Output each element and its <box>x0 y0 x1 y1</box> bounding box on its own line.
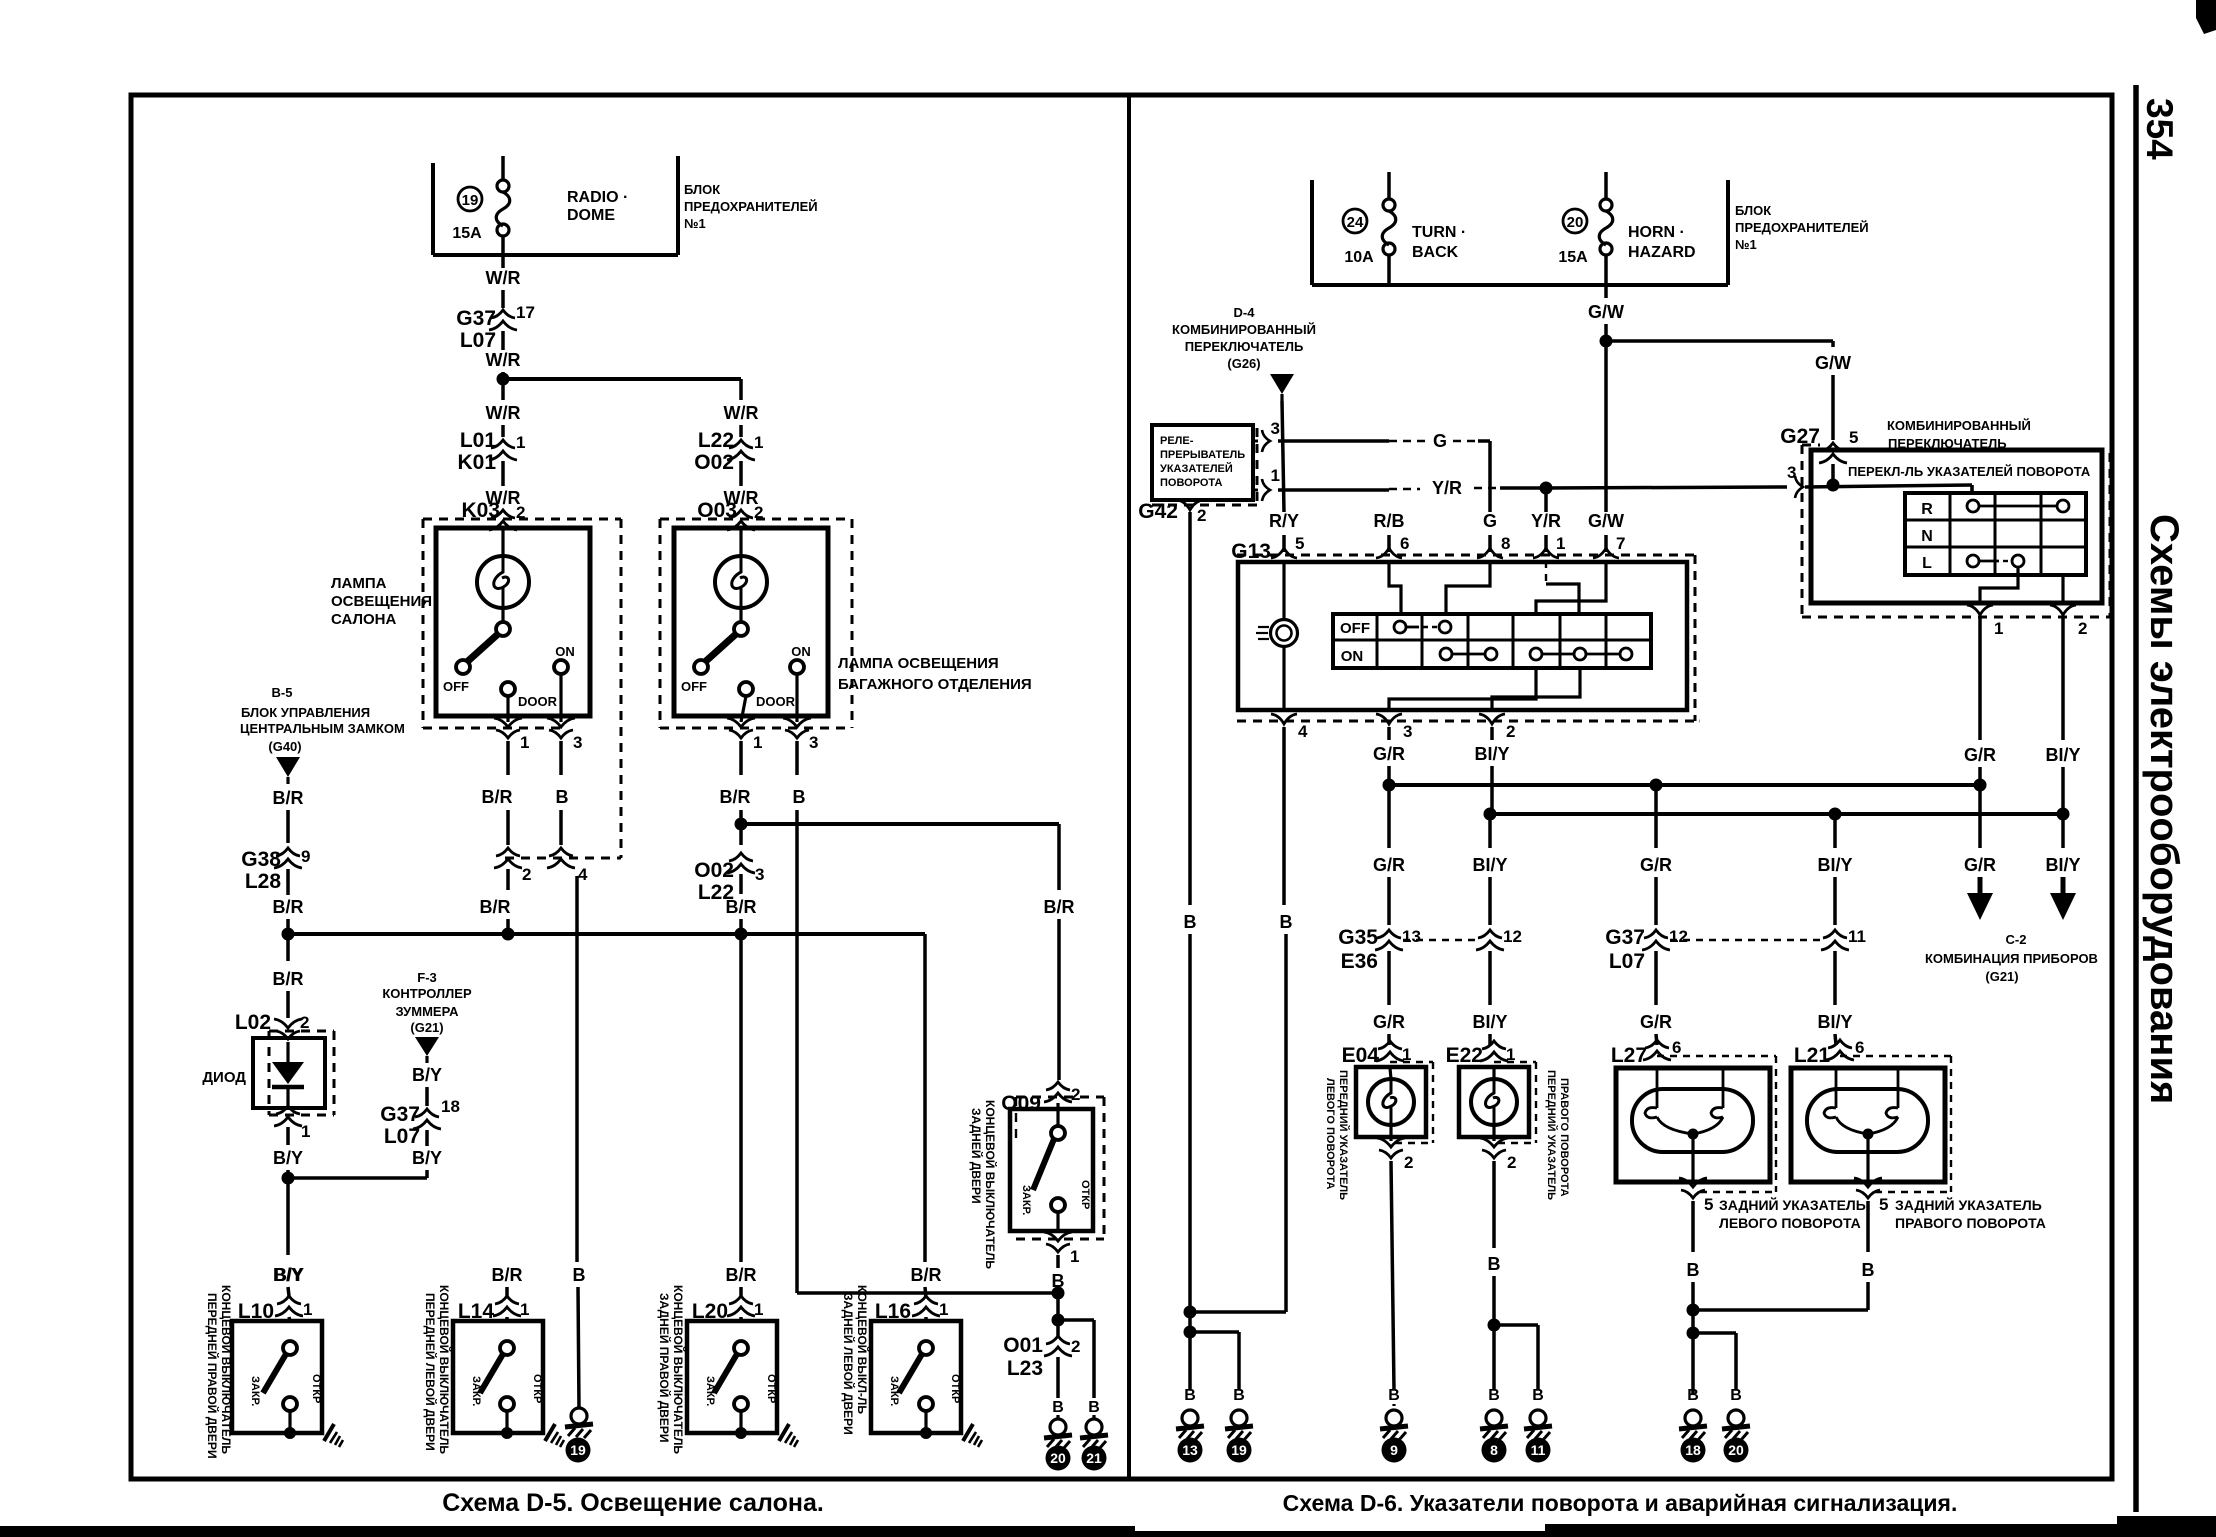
connector O03 pin 2 <box>727 510 755 530</box>
svg-text:B/R: B/R <box>492 1265 523 1285</box>
svg-text:ПРЕРЫВАТЕЛЬ: ПРЕРЫВАТЕЛЬ <box>1160 449 1245 461</box>
svg-text:BI/Y: BI/Y <box>1817 1012 1852 1032</box>
svg-text:B/Y: B/Y <box>412 1148 442 1168</box>
ground 19b <box>1225 1410 1253 1440</box>
svg-text:2: 2 <box>2078 619 2087 638</box>
ON row contacts <box>1440 648 1452 660</box>
svg-text:R/Y: R/Y <box>1269 511 1299 531</box>
connector G37/L07 pin 17 <box>489 310 517 330</box>
svg-text:B: B <box>1280 912 1293 932</box>
svg-text:L28: L28 <box>245 870 282 893</box>
svg-text:F-3: F-3 <box>417 970 437 985</box>
svg-text:20: 20 <box>1050 1450 1066 1466</box>
svg-text:L07: L07 <box>1609 950 1645 973</box>
lamp switch pivot and lever <box>739 608 742 622</box>
svg-text:B: B <box>1862 1260 1875 1280</box>
svg-text:HAZARD: HAZARD <box>1628 244 1696 261</box>
svg-text:Схема D-5. Освещение салона.: Схема D-5. Освещение салона. <box>442 1489 824 1517</box>
svg-text:5: 5 <box>1295 534 1304 553</box>
svg-text:ЗАКР.: ЗАКР. <box>704 1376 716 1406</box>
svg-text:B: B <box>1687 1387 1699 1404</box>
connector L01/K01 pin 1 <box>489 440 517 460</box>
svg-text:G42: G42 <box>1138 500 1178 523</box>
svg-text:6: 6 <box>1855 1038 1864 1057</box>
output jogs <box>1389 668 1536 710</box>
svg-text:G/W: G/W <box>1588 511 1624 531</box>
feeds/outputs of turn switch <box>1970 485 1973 493</box>
connector pin 12 <box>1476 930 1504 950</box>
svg-text:2: 2 <box>1071 1085 1080 1104</box>
svg-text:R: R <box>1921 501 1933 518</box>
svg-text:BI/Y: BI/Y <box>2045 855 2080 875</box>
svg-text:354: 354 <box>2139 98 2180 160</box>
svg-text:ДИОД: ДИОД <box>202 1069 246 1086</box>
svg-text:12: 12 <box>1503 927 1522 946</box>
connector G38/L28 pin 9 <box>274 848 302 868</box>
svg-text:G37: G37 <box>456 307 496 330</box>
svg-text:13: 13 <box>1402 927 1421 946</box>
connector O02/L22 pin 3 <box>727 853 755 873</box>
svg-text:W/R: W/R <box>486 268 521 288</box>
feed jogs into table <box>1389 561 1401 614</box>
svg-text:24: 24 <box>1347 214 1364 231</box>
svg-text:Y/R: Y/R <box>1432 478 1462 498</box>
svg-text:КОМБИНИРОВАННЫЙ: КОМБИНИРОВАННЫЙ <box>1887 418 2031 433</box>
panel divider <box>1127 95 1131 1479</box>
svg-text:ОСВЕЩЕНИЯ: ОСВЕЩЕНИЯ <box>331 593 432 610</box>
svg-text:ОТКР: ОТКР <box>949 1374 961 1403</box>
svg-text:TURN ·: TURN · <box>1412 224 1466 241</box>
ON contact <box>554 660 568 674</box>
ground 13 <box>1176 1410 1204 1440</box>
svg-text:ПЕРЕДНЕЙ ЛЕВОЙ ДВЕРИ: ПЕРЕДНЕЙ ЛЕВОЙ ДВЕРИ <box>423 1293 438 1451</box>
svg-text:ПРЕДОХРАНИТЕЛЕЙ: ПРЕДОХРАНИТЕЛЕЙ <box>684 199 818 214</box>
svg-text:G/R: G/R <box>1640 855 1672 875</box>
diode L02 <box>269 1030 334 1033</box>
svg-text:ПЕРЕКЛ-ЛЬ УКАЗАТЕЛЕЙ ПОВОРОТА: ПЕРЕКЛ-ЛЬ УКАЗАТЕЛЕЙ ПОВОРОТА <box>1848 464 2091 479</box>
svg-text:B: B <box>1184 1387 1196 1404</box>
fuse 24 10A TURN-BACK <box>1387 172 1391 199</box>
svg-text:G/W: G/W <box>1588 302 1624 322</box>
rear left turn lamp L27 <box>1643 1040 1671 1060</box>
svg-text:ЛАМПА: ЛАМПА <box>331 575 387 592</box>
G27 pin 3 entry <box>1795 476 1803 498</box>
connector L22/O02 pin 1 <box>727 440 755 460</box>
svg-text:САЛОНА: САЛОНА <box>331 611 396 628</box>
svg-text:БАГАЖНОГО ОТДЕЛЕНИЯ: БАГАЖНОГО ОТДЕЛЕНИЯ <box>838 676 1032 693</box>
L27 column: G/R down <box>1654 785 1658 848</box>
svg-text:ОТКР: ОТКР <box>1079 1180 1091 1209</box>
junction node <box>497 373 510 386</box>
svg-text:G13: G13 <box>1231 540 1271 563</box>
svg-text:L22: L22 <box>698 429 734 452</box>
svg-text:OFF: OFF <box>1340 620 1370 637</box>
svg-text:ЗАДНИЙ УКАЗАТЕЛЬ: ЗАДНИЙ УКАЗАТЕЛЬ <box>1719 1196 1866 1213</box>
svg-text:L: L <box>1922 555 1932 572</box>
svg-text:ЗАДНЕЙ ПРАВОЙ ДВЕРИ: ЗАДНЕЙ ПРАВОЙ ДВЕРИ <box>657 1293 672 1443</box>
relay pin 1 (Y/R wire) <box>1253 489 1258 492</box>
svg-text:11: 11 <box>1531 1442 1546 1458</box>
svg-text:№1: №1 <box>684 216 706 231</box>
svg-text:1: 1 <box>301 1122 310 1141</box>
trunk lamp O03 box <box>674 528 828 716</box>
G13 bottom pins 4,3,2 <box>1271 714 1297 724</box>
svg-text:1: 1 <box>1994 619 2003 638</box>
svg-text:G27: G27 <box>1780 425 1820 448</box>
svg-text:W/R: W/R <box>486 403 521 423</box>
svg-text:DOOR: DOOR <box>518 694 558 709</box>
interior lamp K03 box <box>436 528 590 716</box>
svg-text:8: 8 <box>1490 1442 1498 1458</box>
svg-text:L02: L02 <box>235 1011 271 1034</box>
rear door switch O09 <box>1044 1082 1072 1102</box>
svg-text:4: 4 <box>578 865 588 884</box>
wires door/on out of lamp K03, pins 1 and 3 <box>506 696 509 722</box>
svg-text:ЗАКР.: ЗАКР. <box>1020 1185 1032 1215</box>
svg-text:БЛОК: БЛОК <box>684 182 720 197</box>
svg-text:BACK: BACK <box>1412 244 1459 261</box>
svg-text:HORN ·: HORN · <box>1628 224 1685 241</box>
svg-text:B/Y: B/Y <box>412 1065 442 1085</box>
connector K03 pin 2 <box>489 510 517 530</box>
svg-text:1: 1 <box>753 733 762 752</box>
svg-text:BI/Y: BI/Y <box>1474 744 1509 764</box>
svg-text:2: 2 <box>1404 1153 1413 1172</box>
svg-text:БЛОК УПРАВЛЕНИЯ: БЛОК УПРАВЛЕНИЯ <box>241 705 370 720</box>
relay pin 3 (G wire) <box>1253 440 1258 443</box>
interior lamp unit K03 dashed boundary <box>422 519 425 728</box>
svg-text:OFF: OFF <box>443 679 469 694</box>
svg-text:B: B <box>1388 1387 1400 1404</box>
svg-text:W/R: W/R <box>486 350 521 370</box>
svg-text:9: 9 <box>301 847 310 866</box>
connector pin 1 below diode <box>274 1106 302 1126</box>
svg-text:B: B <box>1488 1387 1500 1404</box>
fuse 19 15A RADIO-DOME <box>501 156 505 180</box>
svg-text:19: 19 <box>462 192 479 209</box>
svg-text:ЦЕНТРАЛЬНЫМ ЗАМКОМ: ЦЕНТРАЛЬНЫМ ЗАМКОМ <box>240 721 405 736</box>
svg-text:B: B <box>1088 1399 1100 1416</box>
svg-text:B/R: B/R <box>726 1265 757 1285</box>
svg-text:1: 1 <box>754 1300 763 1319</box>
svg-text:ON: ON <box>791 644 811 659</box>
connector O01/L23 pin 2 <box>1044 1336 1072 1356</box>
R/Y wire from D-4 <box>1282 401 1284 512</box>
svg-text:1: 1 <box>754 433 763 452</box>
B/R bus junction <box>288 932 925 936</box>
svg-text:L07: L07 <box>384 1125 420 1148</box>
BI/Y bus <box>1490 812 2063 816</box>
svg-text:RADIO ·: RADIO · <box>567 189 628 206</box>
svg-text:ПЕРЕКЛЮЧАТЕЛЬ: ПЕРЕКЛЮЧАТЕЛЬ <box>1185 339 1304 354</box>
svg-text:ПРАВОГО ПОВОРОТА: ПРАВОГО ПОВОРОТА <box>1895 1215 2046 1231</box>
svg-text:1: 1 <box>516 433 525 452</box>
wire B from trunk lamp to O01 <box>797 1291 1058 1295</box>
svg-text:E04: E04 <box>1342 1044 1380 1067</box>
ground 18 <box>1679 1410 1707 1440</box>
svg-text:5: 5 <box>1704 1195 1713 1214</box>
scan noise bottom bar <box>0 1526 1135 1537</box>
wires out of O03 pins 1 and 3 <box>741 696 746 722</box>
ground 20 <box>1722 1410 1750 1440</box>
Y/R riser to G13 pin 1 <box>1544 488 1548 512</box>
ground 20 <box>1044 1419 1072 1449</box>
scan noise top right <box>2196 0 2216 34</box>
svg-text:7: 7 <box>1616 534 1625 553</box>
ground 19 <box>565 1408 593 1438</box>
svg-text:17: 17 <box>516 303 535 322</box>
svg-text:G38: G38 <box>241 848 281 871</box>
svg-text:G35: G35 <box>1338 926 1378 949</box>
svg-text:O01: O01 <box>1003 1334 1043 1357</box>
ground 11 <box>1524 1410 1552 1440</box>
G/W wire from fuse 20 <box>1604 285 1608 298</box>
sidebar rule <box>2133 85 2139 1512</box>
svg-text:L27: L27 <box>1611 1044 1647 1067</box>
branch to ground 21 <box>1058 1318 1094 1322</box>
svg-text:ОТКР: ОТКР <box>765 1374 777 1403</box>
svg-text:2: 2 <box>1506 722 1515 741</box>
svg-text:КОНЦЕВОЙ ВЫКЛЮЧАТЕЛЬ: КОНЦЕВОЙ ВЫКЛЮЧАТЕЛЬ <box>219 1285 234 1454</box>
svg-text:3: 3 <box>755 865 764 884</box>
connector G37/L07 pin 12 <box>1642 930 1670 950</box>
svg-text:R/B: R/B <box>1374 511 1405 531</box>
junction to buzzer controller <box>282 1172 295 1185</box>
OFF contact <box>456 660 470 674</box>
OFF contact <box>694 660 708 674</box>
lamp bulb <box>501 528 504 556</box>
svg-text:ПРЕДОХРАНИТЕЛЕЙ: ПРЕДОХРАНИТЕЛЕЙ <box>1735 220 1869 235</box>
svg-text:18: 18 <box>441 1097 460 1116</box>
svg-text:BI/Y: BI/Y <box>1472 1012 1507 1032</box>
svg-text:K01: K01 <box>457 451 496 474</box>
E04 column: G/R down <box>1387 791 1391 848</box>
svg-text:2: 2 <box>300 1013 309 1032</box>
ground 21 <box>1080 1419 1108 1449</box>
svg-text:B: B <box>556 787 569 807</box>
svg-text:BI/Y: BI/Y <box>1472 855 1507 875</box>
svg-text:W/R: W/R <box>724 403 759 423</box>
svg-text:13: 13 <box>1182 1442 1198 1458</box>
svg-text:B: B <box>573 1265 586 1285</box>
svg-text:B/R: B/R <box>726 897 757 917</box>
svg-text:B/R: B/R <box>482 787 513 807</box>
svg-text:9: 9 <box>1390 1442 1398 1458</box>
svg-text:19: 19 <box>1231 1442 1247 1458</box>
svg-text:B/R: B/R <box>273 897 304 917</box>
svg-text:2: 2 <box>1197 506 1206 525</box>
svg-text:(G21): (G21) <box>410 1020 443 1035</box>
svg-text:G: G <box>1483 511 1497 531</box>
L row contacts <box>1967 555 1979 567</box>
L21 column: BI/Y down <box>1833 820 1837 848</box>
branch node to rear door switch O09 <box>735 818 748 831</box>
svg-text:O02: O02 <box>694 451 734 474</box>
G13 connector row <box>1237 554 1695 557</box>
svg-text:G/R: G/R <box>1964 745 1996 765</box>
svg-text:G/R: G/R <box>1640 1012 1672 1032</box>
svg-text:B/R: B/R <box>480 897 511 917</box>
svg-text:БЛОК: БЛОК <box>1735 203 1771 218</box>
svg-text:DOOR: DOOR <box>756 694 796 709</box>
inline connector pins 2 and 4 <box>494 848 522 868</box>
svg-text:3: 3 <box>1787 463 1796 482</box>
svg-text:O02: O02 <box>694 859 734 882</box>
svg-text:BI/Y: BI/Y <box>1817 855 1852 875</box>
svg-text:O09: O09 <box>1001 1092 1041 1115</box>
svg-text:КОНЦЕВОЙ ВЫКЛЮЧАТЕЛЬ: КОНЦЕВОЙ ВЫКЛЮЧАТЕЛЬ <box>983 1100 998 1269</box>
svg-text:G37: G37 <box>380 1103 420 1126</box>
svg-text:1: 1 <box>1070 1247 1079 1266</box>
svg-text:8: 8 <box>1501 534 1510 553</box>
connector G37/L07 pin 18 <box>413 1109 441 1129</box>
svg-text:B/R: B/R <box>273 969 304 989</box>
svg-text:КОНЦЕВОЙ ВЫКЛЮЧАТЕЛЬ: КОНЦЕВОЙ ВЫКЛЮЧАТЕЛЬ <box>671 1285 686 1454</box>
trunk lamp unit O03 dashed boundary <box>659 519 662 728</box>
svg-text:РЕЛЕ-: РЕЛЕ- <box>1160 435 1194 447</box>
svg-text:ON: ON <box>1341 648 1364 665</box>
C-2 combination of instruments arrows <box>1978 785 1982 848</box>
svg-text:4: 4 <box>1298 722 1308 741</box>
svg-text:B/R: B/R <box>911 1265 942 1285</box>
svg-text:Схема D-6. Указатели поворота: Схема D-6. Указатели поворота и аварийна… <box>1283 1490 1958 1516</box>
illumination lamp <box>1282 562 1285 619</box>
ground 9 <box>1380 1410 1408 1440</box>
svg-text:L21: L21 <box>1794 1044 1831 1067</box>
svg-text:ПРАВОГО ПОВОРОТА: ПРАВОГО ПОВОРОТА <box>1558 1078 1570 1197</box>
svg-text:ОТКР: ОТКР <box>531 1374 543 1403</box>
svg-text:УКАЗАТЕЛЕЙ: УКАЗАТЕЛЕЙ <box>1160 462 1233 475</box>
svg-text:ЛЕВОГО ПОВОРОТА: ЛЕВОГО ПОВОРОТА <box>1324 1078 1336 1189</box>
svg-text:G/R: G/R <box>1373 744 1405 764</box>
svg-text:1: 1 <box>520 1300 529 1319</box>
svg-text:КОНЦЕВОЙ ВЫКЛЮЧАТЕЛЬ: КОНЦЕВОЙ ВЫКЛЮЧАТЕЛЬ <box>437 1285 452 1454</box>
svg-text:3: 3 <box>573 733 582 752</box>
svg-text:G37: G37 <box>1605 926 1645 949</box>
svg-text:N: N <box>1921 528 1933 545</box>
svg-text:1: 1 <box>1556 534 1565 553</box>
svg-text:L07: L07 <box>460 329 496 352</box>
hazard contact table <box>1333 614 1651 668</box>
R row contacts <box>1967 500 1979 512</box>
svg-text:21: 21 <box>1086 1450 1102 1466</box>
ground 8 <box>1480 1410 1508 1440</box>
lamp bulb <box>739 528 742 556</box>
svg-text:5: 5 <box>1849 428 1858 447</box>
svg-text:G: G <box>1433 431 1447 451</box>
svg-text:1: 1 <box>1271 466 1280 485</box>
svg-text:OFF: OFF <box>681 679 707 694</box>
svg-text:5: 5 <box>1879 1195 1888 1214</box>
svg-text:КОМБИНАЦИЯ ПРИБОРОВ: КОМБИНАЦИЯ ПРИБОРОВ <box>1925 951 2098 966</box>
fuse box 1 (БЛОК ПРЕДОХРАНИТЕЛЕЙ №1) <box>431 163 435 255</box>
svg-text:B/Y: B/Y <box>273 1148 303 1168</box>
svg-text:ПЕРЕДНЕЙ ПРАВОЙ ДВЕРИ: ПЕРЕДНЕЙ ПРАВОЙ ДВЕРИ <box>205 1293 220 1459</box>
svg-text:B: B <box>1233 1387 1245 1404</box>
svg-text:ПЕРЕДНИЙ УКАЗАТЕЛЬ: ПЕРЕДНИЙ УКАЗАТЕЛЬ <box>1337 1070 1350 1200</box>
svg-text:1: 1 <box>939 1300 948 1319</box>
svg-text:G/R: G/R <box>1373 1012 1405 1032</box>
svg-text:ЗАДНИЙ УКАЗАТЕЛЬ: ЗАДНИЙ УКАЗАТЕЛЬ <box>1895 1196 2042 1213</box>
connector pin 11 <box>1821 930 1849 950</box>
R/N/L contact table <box>1905 493 2086 575</box>
svg-text:ЗАДНЕЙ ДВЕРИ: ЗАДНЕЙ ДВЕРИ <box>969 1108 984 1204</box>
svg-text:КОМБИНИРОВАННЫЙ: КОМБИНИРОВАННЫЙ <box>1172 322 1316 337</box>
svg-text:B: B <box>1730 1387 1742 1404</box>
svg-text:B/Y: B/Y <box>274 1265 304 1285</box>
svg-text:6: 6 <box>1672 1038 1681 1057</box>
svg-text:2: 2 <box>522 865 531 884</box>
svg-text:ПЕРЕДНИЙ УКАЗАТЕЛЬ: ПЕРЕДНИЙ УКАЗАТЕЛЬ <box>1545 1070 1558 1200</box>
svg-text:ЗАКР.: ЗАКР. <box>470 1376 482 1406</box>
E22 column: BI/Y down <box>1488 820 1492 848</box>
svg-text:B/R: B/R <box>720 787 751 807</box>
connector G27 pin 5 <box>1819 443 1847 463</box>
svg-text:BI/Y: BI/Y <box>2045 745 2080 765</box>
rear right turn lamp L21 <box>1826 1040 1854 1060</box>
svg-text:L23: L23 <box>1007 1357 1043 1380</box>
svg-text:B: B <box>1184 912 1197 932</box>
ON contact <box>790 660 804 674</box>
svg-text:G/R: G/R <box>1373 855 1405 875</box>
svg-text:Схемы электрооборудования: Схемы электрооборудования <box>2142 514 2186 1104</box>
svg-text:2: 2 <box>1507 1153 1516 1172</box>
svg-text:B/R: B/R <box>273 788 304 808</box>
svg-text:КОНЦЕВОЙ ВЫКЛ-ЛЬ: КОНЦЕВОЙ ВЫКЛ-ЛЬ <box>855 1285 870 1414</box>
svg-text:11: 11 <box>1848 927 1866 946</box>
G/W branch to turn signal switch <box>1606 339 1833 343</box>
svg-text:15A: 15A <box>452 225 482 242</box>
svg-text:E36: E36 <box>1341 950 1378 973</box>
turn signal relay РЕЛЕ-ПРЕРЫВАТЕЛЬ <box>1152 425 1253 500</box>
svg-text:B: B <box>1488 1254 1501 1274</box>
svg-text:L01: L01 <box>460 429 497 452</box>
svg-text:1: 1 <box>303 1300 312 1319</box>
connector L02 pin 2 <box>274 1019 302 1039</box>
svg-text:(G40): (G40) <box>268 739 301 754</box>
svg-text:№1: №1 <box>1735 237 1757 252</box>
svg-text:6: 6 <box>1400 534 1409 553</box>
svg-text:ЗУММЕРА: ЗУММЕРА <box>396 1004 460 1019</box>
svg-text:B-5: B-5 <box>272 685 293 700</box>
svg-text:ЛАМПА ОСВЕЩЕНИЯ: ЛАМПА ОСВЕЩЕНИЯ <box>838 655 999 672</box>
svg-text:ПОВОРОТА: ПОВОРОТА <box>1160 477 1222 489</box>
svg-text:20: 20 <box>1567 214 1584 231</box>
svg-text:B: B <box>1052 1399 1064 1416</box>
svg-text:18: 18 <box>1685 1442 1701 1458</box>
svg-text:ЗАКР.: ЗАКР. <box>249 1376 261 1406</box>
G/R bus <box>1389 783 1980 787</box>
svg-text:B/R: B/R <box>1044 897 1075 917</box>
svg-text:DOME: DOME <box>567 207 615 224</box>
svg-text:1: 1 <box>520 733 529 752</box>
svg-text:ЛЕВОГО ПОВОРОТА: ЛЕВОГО ПОВОРОТА <box>1719 1215 1861 1231</box>
svg-text:E22: E22 <box>1446 1044 1483 1067</box>
fuse box 2 (БЛОК ПРЕДОХРАНИТЕЛЕЙ №1) <box>1310 180 1314 285</box>
svg-text:10A: 10A <box>1344 249 1374 266</box>
svg-text:(G21): (G21) <box>1985 969 2018 984</box>
svg-text:2: 2 <box>1071 1337 1080 1356</box>
svg-text:12: 12 <box>1669 927 1688 946</box>
svg-text:3: 3 <box>1271 419 1280 438</box>
connector G35/E36 pin 13 <box>1375 930 1403 950</box>
DOOR contact <box>501 682 515 696</box>
branch to ground 20 <box>1693 1331 1736 1335</box>
front right turn lamp E22 <box>1480 1041 1508 1061</box>
svg-text:20: 20 <box>1728 1442 1744 1458</box>
svg-text:G/W: G/W <box>1815 353 1851 373</box>
svg-text:Y/R: Y/R <box>1531 511 1561 531</box>
